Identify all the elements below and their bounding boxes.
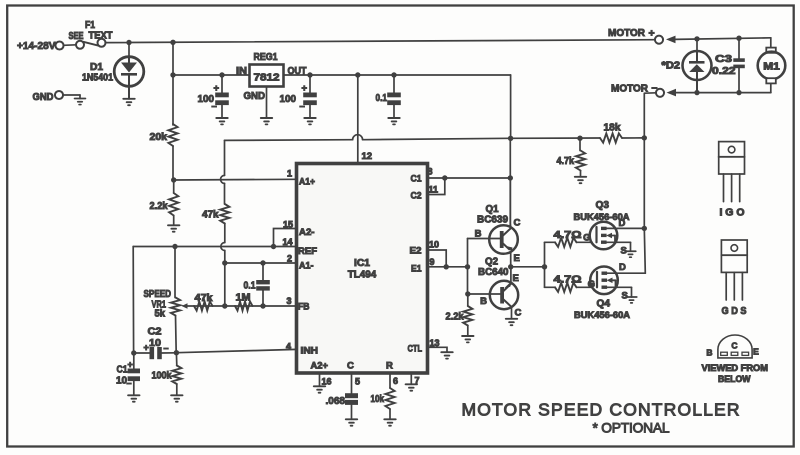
svg-text:F1: F1 xyxy=(85,20,95,31)
svg-text:REF: REF xyxy=(298,246,317,257)
svg-text:R: R xyxy=(386,361,393,372)
svg-text:4.7k: 4.7k xyxy=(557,156,575,167)
svg-text:D: D xyxy=(619,218,626,229)
svg-text:C: C xyxy=(347,361,354,372)
svg-text:–: – xyxy=(300,101,305,112)
svg-text:16: 16 xyxy=(322,377,332,387)
svg-text:+: + xyxy=(144,343,149,353)
svg-text:1M: 1M xyxy=(236,293,251,304)
svg-text:MOTOR: MOTOR xyxy=(608,27,645,39)
svg-text:SEE: SEE xyxy=(69,31,84,42)
svg-text:47k: 47k xyxy=(195,293,213,304)
svg-text:1N5401: 1N5401 xyxy=(82,73,113,84)
svg-text:I G O: I G O xyxy=(720,207,745,218)
svg-text:Q1: Q1 xyxy=(486,204,499,215)
svg-text:+14-28V: +14-28V xyxy=(17,40,56,52)
svg-text:BUK456-60A: BUK456-60A xyxy=(574,310,630,320)
svg-text:E2: E2 xyxy=(410,246,422,257)
svg-text:1: 1 xyxy=(287,169,292,179)
svg-text:12: 12 xyxy=(362,151,373,162)
svg-text:C1: C1 xyxy=(411,174,423,185)
svg-text:7812: 7812 xyxy=(254,72,280,84)
svg-text:11: 11 xyxy=(429,185,439,195)
svg-text:G: G xyxy=(583,233,590,244)
svg-text:5: 5 xyxy=(355,377,360,387)
svg-text:18k: 18k xyxy=(604,123,621,134)
svg-text:A2+: A2+ xyxy=(311,361,329,372)
svg-text:C: C xyxy=(515,308,522,319)
svg-text:.068: .068 xyxy=(326,396,346,407)
svg-text:A1+: A1+ xyxy=(299,176,315,187)
svg-text:REG1: REG1 xyxy=(254,52,278,63)
svg-text:A2-: A2- xyxy=(299,227,315,238)
svg-text:TL494: TL494 xyxy=(348,270,377,281)
svg-text:BELOW: BELOW xyxy=(718,374,751,384)
svg-text:Q3: Q3 xyxy=(596,200,610,211)
svg-text:2.2k: 2.2k xyxy=(446,312,464,323)
svg-text:–: – xyxy=(164,343,169,353)
svg-text:C2: C2 xyxy=(411,191,422,202)
svg-text:6: 6 xyxy=(393,376,398,386)
svg-text:B: B xyxy=(706,348,712,358)
svg-text:D1: D1 xyxy=(90,62,103,73)
svg-text:BC640: BC640 xyxy=(478,267,509,278)
svg-text:G: G xyxy=(588,279,595,290)
svg-text:10k: 10k xyxy=(371,394,385,405)
svg-text:4.7Ω: 4.7Ω xyxy=(554,230,582,241)
svg-text:FB: FB xyxy=(298,302,310,313)
svg-text:Q4: Q4 xyxy=(597,299,611,310)
svg-text:G D S: G D S xyxy=(722,306,747,317)
svg-text:100: 100 xyxy=(280,93,297,105)
svg-text:B: B xyxy=(475,229,482,240)
svg-text:10: 10 xyxy=(149,338,161,349)
svg-text:–: – xyxy=(127,378,132,388)
svg-text:20k: 20k xyxy=(150,132,168,143)
svg-text:5k: 5k xyxy=(155,309,166,320)
svg-text:E: E xyxy=(753,347,759,357)
svg-text:47k: 47k xyxy=(202,210,219,221)
svg-text:14: 14 xyxy=(282,237,292,247)
svg-text:D: D xyxy=(619,262,626,273)
svg-text:100k: 100k xyxy=(152,371,172,382)
svg-text:C1: C1 xyxy=(117,365,128,376)
svg-text:4.7Ω: 4.7Ω xyxy=(554,275,582,286)
svg-text:B: B xyxy=(480,296,487,307)
svg-text:GND: GND xyxy=(244,91,266,102)
svg-text:A1-: A1- xyxy=(299,261,314,272)
svg-text:C: C xyxy=(731,340,737,350)
svg-text:E: E xyxy=(513,273,519,284)
svg-text:C2: C2 xyxy=(148,327,162,338)
svg-text:+: + xyxy=(649,28,655,40)
svg-text:*D2: *D2 xyxy=(662,61,681,72)
svg-text:IN: IN xyxy=(236,66,247,77)
svg-text:MOTOR SPEED CONTROLLER: MOTOR SPEED CONTROLLER xyxy=(462,400,740,420)
svg-text:C: C xyxy=(514,218,521,229)
svg-text:13: 13 xyxy=(430,338,440,348)
svg-text:OUT: OUT xyxy=(288,66,307,77)
svg-text:SPEED: SPEED xyxy=(144,289,172,300)
svg-text:2.2k: 2.2k xyxy=(150,201,168,212)
svg-text:E: E xyxy=(514,253,520,264)
svg-text:10: 10 xyxy=(429,240,439,250)
svg-text:S: S xyxy=(621,246,627,257)
svg-text:–: – xyxy=(212,101,217,112)
svg-text:0.1: 0.1 xyxy=(244,281,256,292)
svg-text:S: S xyxy=(622,291,628,302)
svg-text:2: 2 xyxy=(287,254,292,264)
svg-text:C3: C3 xyxy=(715,54,733,65)
svg-text:TEXT: TEXT xyxy=(89,31,113,42)
svg-text:+: + xyxy=(302,83,308,94)
svg-text:8: 8 xyxy=(428,167,433,177)
svg-text:BC639: BC639 xyxy=(477,215,508,226)
svg-text:9: 9 xyxy=(430,257,435,267)
svg-text:MOTOR: MOTOR xyxy=(611,83,648,95)
svg-text:CTL: CTL xyxy=(408,344,423,355)
svg-text:+: + xyxy=(214,83,220,94)
svg-text:VIEWED FROM: VIEWED FROM xyxy=(702,363,769,373)
svg-text:M1: M1 xyxy=(763,62,780,73)
svg-text:INH: INH xyxy=(301,346,319,357)
svg-text:E1: E1 xyxy=(411,264,422,275)
svg-text:IC1: IC1 xyxy=(354,258,370,269)
svg-text:0.1: 0.1 xyxy=(376,93,388,104)
svg-text:3: 3 xyxy=(286,296,291,306)
svg-text:+: + xyxy=(128,360,133,370)
svg-text:0.22: 0.22 xyxy=(712,66,736,77)
svg-text:Q2: Q2 xyxy=(485,257,498,268)
svg-text:GND: GND xyxy=(33,91,54,103)
svg-text:* OPTIONAL: * OPTIONAL xyxy=(593,421,670,436)
